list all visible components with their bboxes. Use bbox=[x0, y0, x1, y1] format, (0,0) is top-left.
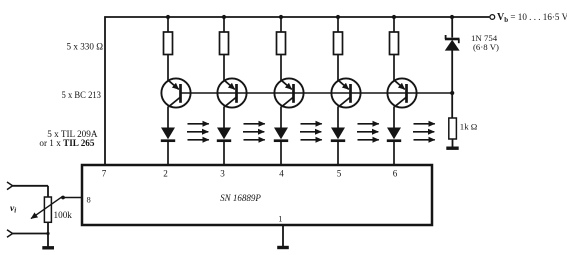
svg-text:SN 16889P: SN 16889P bbox=[220, 193, 261, 203]
svg-text:8: 8 bbox=[87, 195, 91, 205]
svg-text:1k Ω: 1k Ω bbox=[460, 122, 478, 132]
svg-text:2: 2 bbox=[163, 169, 168, 179]
svg-text:(6·8 V): (6·8 V) bbox=[473, 42, 499, 52]
svg-text:vi: vi bbox=[10, 203, 16, 215]
svg-text:5 x 330 Ω: 5 x 330 Ω bbox=[67, 42, 104, 53]
svg-text:3: 3 bbox=[220, 169, 225, 179]
svg-text:7: 7 bbox=[102, 169, 107, 179]
svg-text:or 1 x TIL 265: or 1 x TIL 265 bbox=[39, 138, 95, 148]
svg-text:6: 6 bbox=[393, 169, 398, 179]
svg-text:5 x BC 213: 5 x BC 213 bbox=[62, 90, 102, 101]
svg-text:100k: 100k bbox=[54, 210, 73, 220]
svg-text:1: 1 bbox=[278, 214, 282, 224]
svg-text:Vb = 10 . . . 16·5 V: Vb = 10 . . . 16·5 V bbox=[497, 12, 567, 24]
svg-text:4: 4 bbox=[279, 169, 284, 179]
svg-text:5: 5 bbox=[337, 169, 342, 179]
